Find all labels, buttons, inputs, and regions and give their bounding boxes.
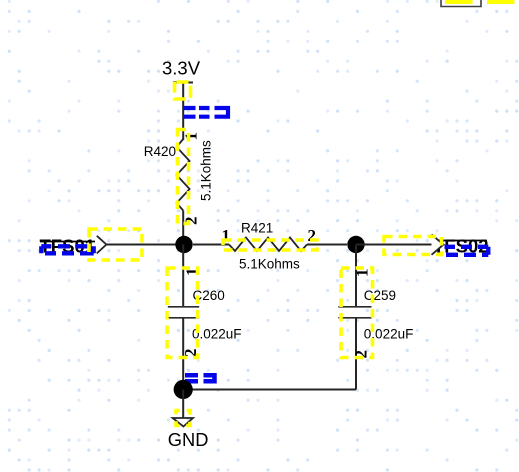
ground symbol	[168, 418, 209, 450]
selection box power	[175, 82, 191, 99]
selection box C259	[341, 268, 373, 358]
R420 zigzag body	[177, 139, 190, 211]
wire R421 pin 2 to node B	[307, 244, 347, 246]
wire node A to R421 pin 1	[193, 244, 229, 246]
capacitor C260	[168, 245, 242, 390]
resistor R420	[144, 132, 214, 225]
wire node B to C259 pin 1	[355, 245, 357, 307]
selection dashes top right	[445, 0, 519, 4]
capacitor C259	[338, 245, 413, 390]
junction node left	[175, 236, 192, 253]
svg-text:3.3V: 3.3V	[162, 58, 201, 79]
blue marker TFS01	[41, 246, 93, 253]
svg-text:0.022uF: 0.022uF	[192, 327, 242, 342]
selection box R420	[178, 130, 189, 224]
C260 bottom plate	[168, 317, 199, 319]
resistor R421	[193, 221, 347, 272]
junction node bottom	[174, 380, 193, 399]
blue marker bottom	[185, 375, 215, 381]
net label TFS01	[40, 236, 96, 257]
C259 bottom plate	[338, 317, 371, 319]
C259 top plate	[338, 306, 371, 308]
svg-text:5.1Kohms: 5.1Kohms	[199, 140, 214, 201]
C260 top plate	[168, 306, 199, 308]
selection box R421	[223, 240, 317, 250]
svg-text:R420: R420	[144, 144, 176, 159]
svg-text:5.1Kohms: 5.1Kohms	[239, 257, 300, 272]
wire node A to C260 pin 1	[182, 245, 184, 307]
power bar	[173, 82, 193, 84]
bottom wire between caps	[183, 389, 356, 391]
R421 zigzag body	[229, 238, 307, 252]
svg-text:1: 1	[182, 132, 201, 141]
svg-text:R421: R421	[241, 221, 273, 236]
net label TFS02	[433, 236, 489, 257]
wire connector to junction	[106, 244, 184, 246]
wire C260 pin 2 to node C	[182, 318, 184, 390]
svg-text:2: 2	[308, 226, 317, 245]
wire junction to GND	[182, 390, 184, 419]
junction node right	[347, 236, 364, 253]
TFS02 overbar	[434, 240, 487, 242]
selection box left wire	[89, 229, 142, 260]
selection box C260	[167, 268, 198, 358]
wire R420 to junction	[182, 211, 184, 245]
blue marker TFS02	[445, 247, 489, 255]
power symbol 3.3V	[162, 58, 201, 83]
TFS01 overbar	[40, 241, 95, 243]
off-page connector right	[432, 234, 444, 256]
svg-text:C259: C259	[364, 288, 396, 303]
title block corner (top right)	[441, 0, 481, 7]
wire to right connector	[356, 244, 441, 246]
wire C259 pin 2 down to bottom wire	[355, 318, 357, 390]
selection box GND	[176, 411, 190, 426]
wire from power to R420	[182, 83, 184, 141]
selection box right wire	[384, 237, 442, 255]
off-page connector left	[97, 235, 107, 254]
blue marker near power	[184, 108, 228, 117]
svg-text:GND: GND	[168, 429, 209, 450]
ground triangle	[173, 418, 193, 427]
